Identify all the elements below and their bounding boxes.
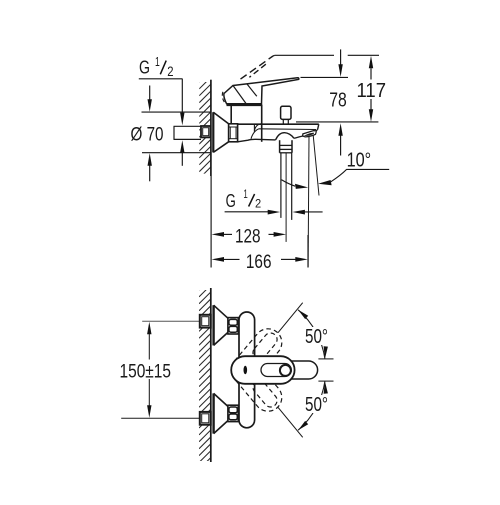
supply squares: [200, 315, 211, 328]
body-spout fillet: [253, 124, 255, 132]
50 lower arc arrows: [324, 381, 328, 394]
dia70 extension lines: [142, 111, 211, 113]
G1/2 mid label underline/leader: [225, 211, 269, 213]
dashed handle position -50 (down): [226, 351, 288, 417]
10deg arrows: [295, 184, 308, 189]
svg-text:150±15: 150±15: [120, 361, 172, 383]
bottom arrowheads: [147, 310, 328, 430]
wall-face ext line continuation: [210, 176, 212, 268]
bottom text: [118, 326, 331, 416]
10deg leader: [282, 180, 296, 186]
G1/2 top arrows (at pipe): [180, 113, 184, 126]
lower S-union cone: [212, 393, 214, 433]
78 arrows shafts: [340, 49, 342, 64]
svg-text:166: 166: [246, 251, 272, 273]
lower radial line: [278, 407, 303, 437]
spout: [238, 123, 319, 125]
lever-top ext line y=77.4: [301, 76, 349, 78]
handle slot: [261, 364, 291, 377]
top ext line y=55.3: [275, 54, 334, 56]
cap bar: [227, 104, 263, 107]
upper S-union cone: [212, 305, 214, 345]
shower outlet nut: [279, 140, 281, 153]
svg-text:G: G: [226, 191, 236, 211]
wall face line: [210, 80, 212, 176]
dashed raised grip arc: [222, 92, 225, 104]
svg-text:Ø 70: Ø 70: [131, 123, 164, 145]
upper arc: [298, 310, 325, 359]
shower hose tube: [280, 153, 282, 218]
wall (hatched): [199, 70, 211, 192]
raised lever (dashed): [241, 56, 274, 79]
svg-text:G: G: [139, 58, 150, 78]
svg-text:1: 1: [155, 55, 160, 69]
svg-text:128: 128: [235, 226, 261, 248]
supply square fitting: [201, 126, 210, 137]
svg-text:117: 117: [357, 80, 387, 102]
shower boss dome: [276, 133, 294, 140]
upper radial line: [278, 303, 303, 333]
150 arrows: [147, 322, 151, 335]
lower union nut: [228, 405, 238, 421]
body capsule: [239, 312, 255, 428]
aerator: [294, 129, 318, 138]
upper union nut: [228, 318, 238, 334]
128 dim line: [222, 233, 232, 235]
lever handle (rest): [224, 78, 299, 104]
svg-text:1: 1: [243, 189, 247, 201]
117 arrows: [369, 56, 373, 69]
150 dim line: [148, 334, 150, 360]
bottom ext line y=122.2: [296, 121, 378, 123]
union hex nut: [229, 124, 238, 142]
water stream line 2: [313, 135, 319, 195]
svg-text:2: 2: [167, 64, 173, 79]
upper ext line: [318, 358, 333, 360]
pivot circle: [280, 365, 291, 376]
svg-text:78: 78: [329, 90, 347, 112]
dashed handle position +50 (up): [226, 323, 288, 389]
diverter knob: [281, 106, 291, 119]
water stream line 1: [307, 136, 310, 267]
50 upper arc arrows: [324, 346, 328, 359]
166 arrows: [212, 257, 225, 262]
arrowheads: [148, 56, 374, 262]
handle loop: [231, 356, 294, 384]
G1/2 mid arrows: [268, 210, 281, 215]
lower ext line: [318, 380, 333, 382]
G1/2 top label leader: [139, 78, 183, 80]
128 arrows: [212, 232, 225, 237]
166 right ext line: [307, 235, 309, 268]
dia70 dim arrows shafts: [149, 86, 151, 101]
svg-text:2: 2: [255, 197, 261, 211]
body (cartridge housing): [230, 105, 232, 124]
50deg annotations: [278, 303, 334, 438]
78 arrows: [338, 64, 342, 77]
supply pipe: [174, 125, 202, 127]
svg-text:50°: 50°: [305, 394, 328, 416]
117 shaft: [370, 68, 372, 79]
escutcheon cone: [212, 112, 214, 152]
handle arm: [292, 361, 318, 379]
wall: [199, 278, 211, 483]
hose axis line: [285, 153, 287, 242]
spout underside: [238, 139, 276, 142]
svg-text:10°: 10°: [347, 150, 372, 172]
indicator dot: [244, 366, 248, 374]
166 dim line: [222, 258, 239, 260]
150 ext lines: [142, 320, 202, 322]
svg-text:50°: 50°: [305, 326, 328, 348]
lower arc: [298, 381, 325, 430]
dia70 arrows: [148, 99, 152, 112]
